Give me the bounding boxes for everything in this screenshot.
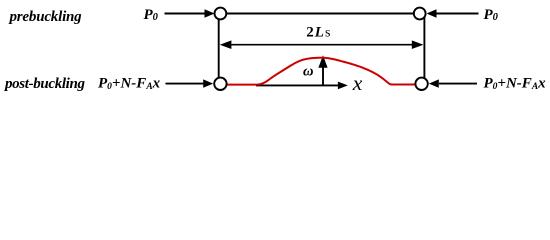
svg-text:prebuckling: prebuckling [8,9,83,25]
svg-text:P0: P0 [484,7,499,23]
svg-text:post-buckling: post-buckling [3,76,85,92]
svg-text:2Ls: 2Ls [306,25,331,41]
svg-text:x: x [352,71,363,95]
svg-text:P0+N-FAx: P0+N-FAx [98,76,161,92]
svg-text:P0: P0 [144,7,159,23]
svg-text:ω: ω [303,64,314,80]
svg-text:P0+N-FAx: P0+N-FAx [484,76,547,92]
